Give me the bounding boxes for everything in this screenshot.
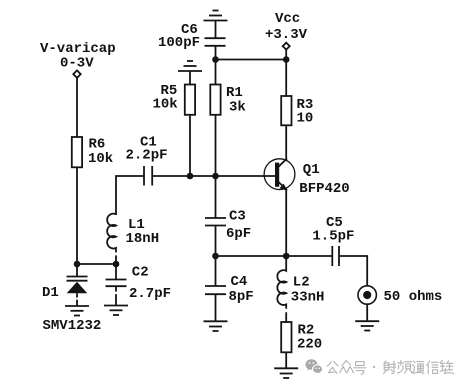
ground (below D1) bbox=[65, 306, 89, 316]
wire terminal to ground bbox=[366, 304, 368, 321]
svg-text:33nH: 33nH bbox=[291, 290, 325, 306]
V-varicap terminal bbox=[73, 70, 80, 77]
node junction C6/R1 bbox=[212, 56, 219, 63]
capacitor C3 bbox=[205, 176, 226, 256]
diode D1 varicap SMV1232 bbox=[67, 264, 88, 306]
svg-text:BFP420: BFP420 bbox=[299, 181, 349, 197]
inductor L1 bbox=[107, 214, 116, 264]
wire emitter rail C3 to C5 bbox=[216, 255, 333, 257]
wire Q1 emitter to output node bbox=[285, 188, 287, 256]
ground (above C6) bbox=[204, 11, 228, 21]
connector 50 ohm output terminal bbox=[358, 286, 376, 304]
ground (above R5) bbox=[178, 61, 202, 71]
wire R3 bottom to Q1 collector bbox=[285, 125, 287, 160]
svg-text:2.2pF: 2.2pF bbox=[126, 148, 168, 164]
svg-text:10k: 10k bbox=[88, 151, 113, 167]
svg-text:Vcc: Vcc bbox=[275, 11, 300, 27]
wire D1 node to C2 node bbox=[77, 263, 116, 265]
wire ground to C6 top bbox=[215, 21, 217, 39]
node junction emitter/L2 bbox=[283, 253, 290, 260]
wire R1 bottom to base rail bbox=[215, 115, 217, 176]
Vcc terminal bbox=[283, 43, 290, 50]
svg-text:2.7pF: 2.7pF bbox=[129, 286, 171, 302]
svg-text:C3: C3 bbox=[229, 209, 246, 225]
ground (below R2) bbox=[274, 368, 298, 378]
wire C5 to output terminal bbox=[339, 256, 367, 286]
wire R2 to ground bbox=[285, 352, 287, 368]
wire C6 bottom to R1 top bbox=[215, 46, 217, 85]
node junction D1 bbox=[74, 261, 81, 268]
node junction C3/C4 bbox=[212, 253, 219, 260]
svg-text:C4: C4 bbox=[231, 274, 248, 290]
capacitor C2 bbox=[106, 264, 127, 306]
node junction R5/base rail bbox=[187, 173, 194, 180]
wire C1 left to L1 corner bbox=[116, 176, 144, 215]
resistor R6 bbox=[72, 137, 82, 167]
wire R6 bottom to D1 node bbox=[76, 167, 78, 264]
wire ground to R5 top bbox=[189, 71, 191, 85]
inductor L2 bbox=[277, 256, 286, 322]
svg-text:50 ohms: 50 ohms bbox=[384, 289, 443, 305]
svg-text:8pF: 8pF bbox=[229, 289, 254, 305]
svg-text:C2: C2 bbox=[132, 265, 149, 281]
wire R5 bottom to base rail bbox=[189, 115, 191, 176]
svg-text:0-3V: 0-3V bbox=[60, 56, 94, 72]
node junction R1/C3/base rail bbox=[212, 173, 219, 180]
svg-text:6pF: 6pF bbox=[226, 226, 251, 242]
svg-text:+3.3V: +3.3V bbox=[265, 27, 308, 43]
ground (below C2) bbox=[104, 306, 128, 316]
resistor R1 bbox=[210, 85, 220, 115]
svg-text:10k: 10k bbox=[153, 97, 178, 113]
svg-text:18nH: 18nH bbox=[126, 231, 160, 247]
svg-text:L2: L2 bbox=[293, 275, 310, 291]
svg-text:10: 10 bbox=[297, 111, 314, 127]
transistor Q1 bbox=[264, 158, 295, 191]
svg-text:D1: D1 bbox=[42, 285, 59, 301]
capacitor C4 bbox=[205, 256, 226, 321]
node Vcc junction bbox=[283, 56, 290, 63]
ground (below 50 ohm terminal) bbox=[355, 321, 379, 330]
resistor R2 bbox=[281, 322, 291, 352]
svg-text:SMV1232: SMV1232 bbox=[43, 318, 102, 334]
node junction C2 bbox=[113, 261, 120, 268]
wire terminal to R6 bbox=[76, 78, 78, 137]
wire Vcc terminal to R3 bbox=[285, 50, 287, 96]
resistor R3 bbox=[281, 96, 291, 125]
watermark text 公众号 · 射频通信链 bbox=[327, 361, 454, 375]
capacitor C1 bbox=[144, 166, 152, 186]
svg-text:220: 220 bbox=[297, 337, 322, 353]
wire C1 right to Q1 base bbox=[152, 175, 275, 177]
watermark wechat icon bbox=[305, 359, 322, 374]
svg-text:100pF: 100pF bbox=[158, 35, 200, 51]
resistor R5 bbox=[185, 85, 195, 115]
capacitor C5 bbox=[332, 246, 339, 266]
svg-text:1.5pF: 1.5pF bbox=[312, 229, 354, 245]
capacitor C6 bbox=[205, 38, 226, 46]
ground (below C4) bbox=[204, 321, 228, 331]
wire top rail to Vcc node bbox=[216, 59, 287, 61]
svg-text:3k: 3k bbox=[229, 100, 246, 116]
svg-text:Q1: Q1 bbox=[303, 162, 320, 178]
